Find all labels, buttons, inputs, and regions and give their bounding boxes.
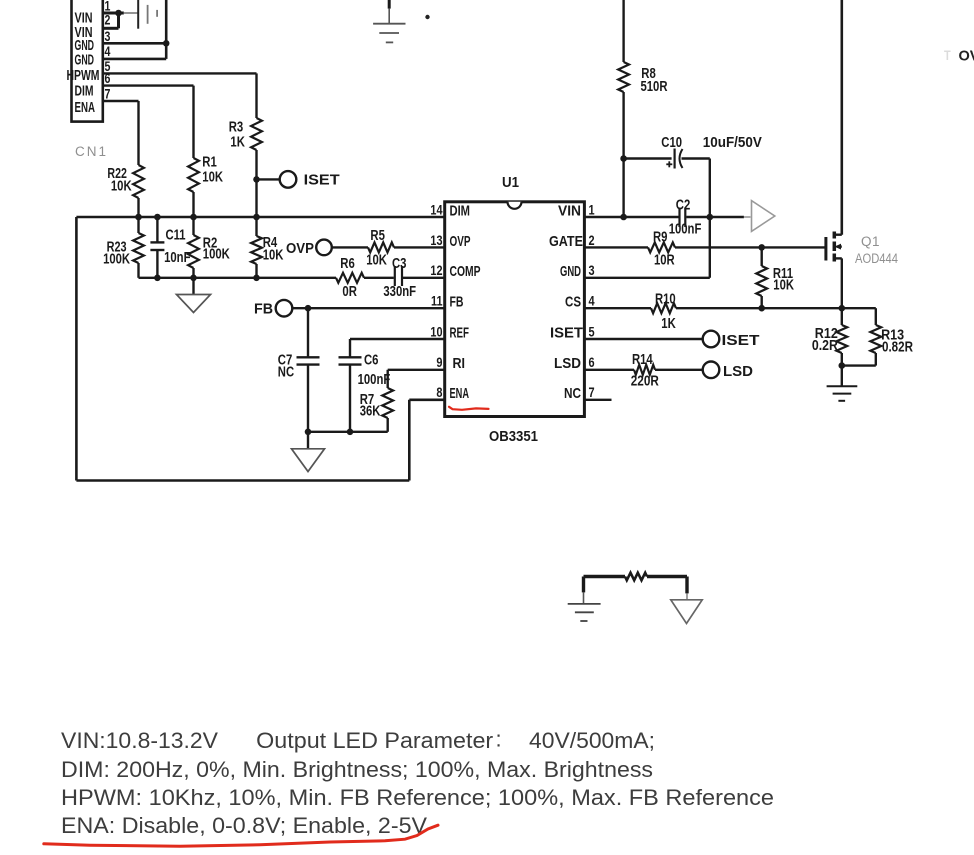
svg-text:R9: R9 [653,230,668,246]
svg-text:C3: C3 [392,256,407,272]
svg-text:1K: 1K [230,135,245,151]
svg-text:R10: R10 [655,292,676,308]
svg-text:LSD: LSD [554,355,581,372]
svg-text:DIM: 200Hz, 0%, Min. Brightnes: DIM: 200Hz, 0%, Min. Brightness; 100%, M… [61,757,653,782]
svg-text:ENA: Disable, 0-0.8V; Enable,: ENA: Disable, 0-0.8V; Enable, 2-5V [61,813,427,838]
svg-text:HPWM: 10Khz, 10%, Min. FB Refe: HPWM: 10Khz, 10%, Min. FB Reference; 100… [61,785,774,810]
svg-text:LSD: LSD [723,364,753,380]
svg-text:GATE: GATE [549,233,583,250]
svg-text:0.82R: 0.82R [882,340,913,356]
svg-text:330nF: 330nF [383,284,416,300]
svg-text:36K: 36K [360,404,381,420]
svg-text:R6: R6 [340,256,355,272]
svg-text:10uF/50V: 10uF/50V [703,135,762,151]
svg-text:ISET: ISET [550,324,583,341]
svg-text:R14: R14 [632,352,653,368]
svg-text:ISET: ISET [304,172,340,188]
svg-text:CN1: CN1 [75,144,108,159]
svg-text:100K: 100K [203,246,230,262]
svg-text:510R: 510R [641,79,668,95]
svg-text:220R: 220R [631,374,659,390]
svg-text:C2: C2 [676,197,691,213]
svg-text:10K: 10K [202,170,223,186]
svg-text:OV: OV [959,48,974,65]
svg-text:R5: R5 [370,228,385,244]
svg-text:100nF: 100nF [669,221,702,237]
svg-text:4: 4 [105,44,111,59]
svg-text:10K: 10K [263,247,284,263]
svg-text:CS: CS [565,294,581,311]
svg-text:GND: GND [75,53,95,69]
svg-text:4: 4 [589,293,595,309]
svg-text:FB: FB [254,302,273,318]
svg-text:3: 3 [589,262,595,278]
svg-text:2: 2 [589,232,595,248]
svg-text:1K: 1K [661,316,676,332]
svg-text::: : [496,727,502,752]
svg-text:2: 2 [105,13,111,28]
svg-text:C6: C6 [364,352,379,368]
svg-text:100K: 100K [103,252,130,268]
svg-text:12: 12 [430,262,442,278]
svg-text:OVP: OVP [286,241,314,257]
svg-text:REF: REF [450,324,470,341]
svg-text:10R: 10R [654,253,675,269]
svg-text:ISET: ISET [722,333,760,349]
svg-text:7: 7 [589,384,595,400]
svg-text:Output LED Parameter: Output LED Parameter [256,728,493,753]
svg-text:5: 5 [589,323,595,339]
svg-text:RI: RI [453,355,466,372]
svg-text:C10: C10 [661,135,682,151]
svg-text:VIN: VIN [558,202,581,219]
svg-text:0R: 0R [342,284,357,300]
svg-text:DIM: DIM [450,202,471,219]
svg-text:3: 3 [105,29,111,44]
svg-text:GND: GND [75,38,95,54]
svg-text:GND: GND [560,263,581,280]
svg-text:9: 9 [436,354,442,370]
svg-text:HPWM: HPWM [67,68,100,84]
svg-text:Q1: Q1 [861,234,880,249]
svg-text:14: 14 [430,201,442,217]
svg-text:ENA: ENA [450,385,470,402]
svg-text:40V/500mA;: 40V/500mA; [529,728,655,753]
svg-text:COMP: COMP [450,263,481,280]
svg-text:T: T [944,47,951,63]
svg-text:10K: 10K [773,278,794,294]
svg-text:13: 13 [430,232,442,248]
svg-text:C11: C11 [166,227,186,243]
svg-text:OB3351: OB3351 [489,429,538,445]
svg-text:R1: R1 [202,154,217,170]
svg-text:NC: NC [278,365,295,381]
svg-text:U1: U1 [502,175,519,191]
svg-text:11: 11 [431,293,443,309]
svg-text:1: 1 [589,201,595,217]
svg-text:NC: NC [564,385,581,402]
svg-text:6: 6 [105,71,111,86]
svg-text:1: 1 [105,0,111,14]
svg-text:10K: 10K [366,253,387,269]
svg-text:10: 10 [430,323,442,339]
svg-text:0.2R: 0.2R [812,338,838,354]
svg-text:7: 7 [105,87,111,102]
svg-text:FB: FB [450,294,464,311]
svg-text:10K: 10K [111,178,132,194]
svg-text:VIN:10.8-13.2V: VIN:10.8-13.2V [61,728,218,753]
svg-text:ENA: ENA [75,100,96,116]
svg-text:100nF: 100nF [358,372,391,388]
svg-text:R3: R3 [229,119,244,135]
svg-text:6: 6 [589,354,595,370]
svg-text:8: 8 [436,384,442,400]
svg-text:10nF: 10nF [164,250,191,266]
svg-text:OVP: OVP [450,233,471,250]
svg-text:DIM: DIM [75,83,94,99]
svg-text:AOD444: AOD444 [855,251,898,266]
